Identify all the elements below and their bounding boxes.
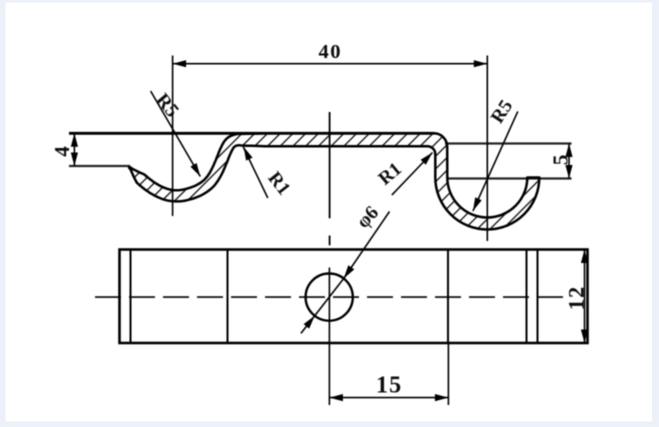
- dimension 5 (right): [568, 144, 570, 179]
- centerline of left hook / 40-dim extension: [172, 56, 174, 217]
- Phi6 leader: [344, 212, 390, 279]
- sheet material cross-section (hatched): [129, 133, 539, 229]
- plan view bend tangent line (right pair outer): [526, 250, 528, 344]
- plan view outline rectangle: [120, 250, 588, 344]
- dimension 40 line: [173, 63, 488, 65]
- dimension 12: [584, 250, 586, 344]
- centerline of right hook / 40-dim extension: [486, 56, 488, 242]
- right end lower edge line: [448, 177, 572, 179]
- svg-text:15: 15: [376, 373, 402, 399]
- dimension 15: [329, 397, 448, 399]
- right end upper edge line: [445, 142, 572, 144]
- hole circle: [306, 274, 353, 321]
- top surface line: [69, 132, 434, 135]
- plan view bend tangent line (left hook): [227, 250, 229, 344]
- vertical centerline through hole: [328, 268, 330, 406]
- plan view bend tangent line (left pair inner): [130, 250, 132, 344]
- left end bottom edge line: [69, 165, 130, 167]
- plan view bend tangent line (right hook) / 15-dim extension top: [447, 250, 449, 344]
- main vertical centerline short dash: [329, 236, 331, 246]
- svg-text:5: 5: [549, 155, 573, 166]
- svg-text:12: 12: [564, 286, 589, 311]
- plan view bend tangent line (right pair inner): [537, 250, 539, 344]
- horizontal dashed centerline: [95, 296, 565, 298]
- 15-dim right extension: [447, 343, 449, 405]
- R1 right leader: [392, 153, 433, 196]
- svg-text:4: 4: [50, 146, 74, 157]
- R5 left leader: [151, 91, 201, 177]
- dimension 4 (left): [73, 133, 75, 166]
- R5 right leader: [473, 111, 518, 211]
- R1 left leader: [243, 147, 268, 198]
- main vertical centerline (section): [329, 112, 331, 218]
- svg-text:40: 40: [319, 41, 343, 63]
